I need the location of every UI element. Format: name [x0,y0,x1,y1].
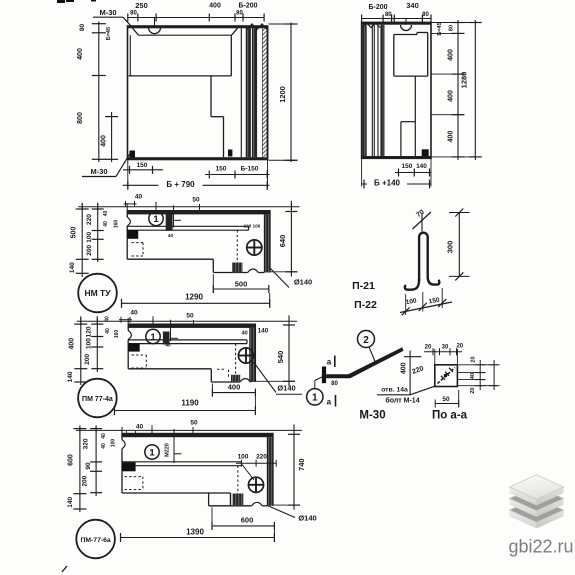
svg-text:1: 1 [312,393,318,404]
slab bottom line [128,343,247,345]
mark circle ПМ-77-6а [76,520,115,559]
svg-text:20: 20 [470,387,476,393]
svg-text:40: 40 [135,194,143,201]
rebar position circle 1 [149,211,163,225]
right end hatched band [267,437,273,506]
svg-text:По а-а: По а-а [432,410,468,422]
overall bottom dim [362,183,431,185]
rebar section dark [161,446,163,448]
dim 140 [416,163,427,170]
svg-text:40: 40 [103,211,109,217]
svg-text:80: 80 [385,12,392,18]
anchor block left [128,344,140,352]
svg-text:2: 2 [363,335,369,346]
left dimension chains [81,203,83,277]
slab right face [537,510,564,528]
svg-text:40: 40 [136,424,144,431]
slab left face [510,487,537,505]
svg-text:1190: 1190 [181,399,199,408]
anchor plate right [228,150,232,157]
dim 150 [401,163,412,170]
hole axis h [249,484,263,486]
svg-text:140: 140 [69,262,76,273]
rebar position circle 1 [146,329,160,343]
svg-text:Б-200: Б-200 [238,3,257,10]
svg-text:30: 30 [442,345,449,351]
leader Ø140 [269,267,289,288]
svg-text:600: 600 [241,516,254,525]
svg-text:40: 40 [470,373,476,379]
top dimension line [78,206,299,208]
bottom dimension rows [123,169,163,171]
svg-text:100: 100 [253,224,261,229]
svg-text:160: 160 [114,220,120,229]
slab left face [510,510,537,528]
top dimension line [128,17,264,19]
right end hatched band [250,328,256,382]
left dimension chains [79,425,81,512]
svg-text:отв. 14а: отв. 14а [381,387,408,394]
bottom notch [248,269,259,273]
bottom edge upper [122,492,231,494]
right dim 300 [458,213,460,277]
dim Б+140 [367,180,407,188]
rebar section dark [163,332,170,345]
hidden line [125,476,143,478]
dark hatched strip 1 [246,28,250,157]
anchor plate [422,149,429,156]
dim 500 [213,288,268,290]
rebar section dark [166,214,173,231]
section ПМ 77-6а (row 4) [67,420,317,559]
inner recess left edge [129,35,131,76]
right end hatched band [264,214,270,272]
stray cropped text at top edge [57,0,65,3]
thin vertical mark [173,205,175,227]
position circle 1 [307,389,323,405]
svg-text:800: 800 [77,112,84,124]
hatched bearing block [232,263,243,273]
hairpin bar [419,233,428,281]
leader up from circle [152,316,154,324]
left dimension chains [80,316,82,385]
top dimension line [362,18,431,20]
zigzag chamfer top [247,24,267,30]
svg-text:400: 400 [101,135,108,147]
svg-text:Б-200: Б-200 [368,4,387,11]
svg-text:40: 40 [168,233,174,239]
leader to bolt [410,386,436,395]
position circle 2 [358,331,375,348]
svg-text:Ø140: Ø140 [277,384,295,393]
svg-text:а: а [327,358,332,367]
svg-text:Ø140: Ø140 [298,514,316,523]
svg-text:400: 400 [209,3,221,10]
svg-text:100: 100 [86,231,93,242]
svg-text:740: 740 [297,458,306,471]
right dimension chains [457,20,459,160]
top chord thick band [362,22,431,24]
svg-text:400: 400 [448,90,455,102]
hole axis v [253,241,255,255]
leader Ø140 [254,362,277,393]
svg-text:а: а [327,398,332,407]
bolt diagonal dashed [438,368,456,384]
slab right face [537,487,564,505]
svg-text:100: 100 [238,454,249,461]
bottom step [210,369,212,382]
left edge [121,433,123,440]
leader up from circle [151,425,153,433]
left dimension chains [98,22,100,163]
leader to corner [123,17,132,26]
svg-text:40: 40 [105,328,111,334]
svg-text:50: 50 [186,313,194,320]
svg-text:140: 140 [67,496,74,507]
svg-text:40: 40 [242,331,248,337]
dim Б-150 [240,166,259,173]
bottom notch [252,502,263,506]
svg-text:400: 400 [401,362,408,374]
figure: elevation view lintel B+140 (top-right) [362,1,482,188]
svg-text:200: 200 [84,353,91,364]
left notch [127,217,130,226]
left edge [127,324,129,331]
svg-text:340: 340 [406,1,419,10]
dark hatched strip 2 [253,28,257,157]
overall bottom dim [123,184,270,186]
dim 400 vertical [409,351,411,395]
thin vertical mark [170,320,172,341]
svg-text:болт М-14: болт М-14 [385,397,419,405]
diagonal dim tick [413,212,432,229]
svg-text:300: 300 [446,241,455,254]
svg-text:40: 40 [130,309,138,316]
slab left face [510,499,537,517]
dark hatched strip [362,25,366,156]
right dim 1200 [290,23,292,163]
dim 1390 [121,537,275,539]
leader to anchor [116,154,130,177]
stray mark bottom-left [62,566,67,572]
svg-text:150: 150 [137,162,148,169]
svg-text:160: 160 [114,330,120,339]
svg-text:1200: 1200 [278,86,287,103]
svg-text:50: 50 [192,197,200,204]
svg-text:40: 40 [105,316,111,322]
svg-text:320: 320 [82,438,89,449]
rebar item П-21 / П-22 [352,209,469,316]
rebar position circle 1 [145,445,159,459]
right foot hook [428,277,440,285]
svg-text:100: 100 [111,439,117,448]
anchor block left [122,462,136,471]
hole Ø140 circle [248,477,263,492]
svg-text:640: 640 [278,235,287,248]
section По а-а : bolt through square [424,344,500,422]
slab top line [128,339,247,341]
svg-text:М-30: М-30 [359,410,385,422]
svg-text:1: 1 [149,447,155,458]
right end vertical joint strips [240,28,242,157]
inner recess [393,35,395,77]
right dim line [290,201,292,277]
slab bottom line [127,229,248,231]
svg-text:Б-150: Б-150 [241,166,259,173]
slab top face [510,475,564,499]
hidden line [132,242,144,244]
hatched bearing block [231,375,240,382]
svg-text:1: 1 [150,332,156,343]
bottom dimension rows [395,172,431,174]
svg-text:20: 20 [471,356,477,362]
svg-text:140: 140 [67,371,74,382]
svg-text:40: 40 [101,433,107,439]
left edge [126,210,128,217]
bottom edge lower [213,272,247,274]
step box bottom [209,505,231,507]
inner recess bottom [129,75,232,77]
dim Б+790 [159,181,203,189]
right edge reinforced [267,26,269,160]
zigzag chamfer top [362,23,380,28]
mark circle НМ ТУ [78,274,117,313]
svg-text:ПМ 77-4а: ПМ 77-4а [82,396,113,403]
thin vertical mark [173,429,175,463]
svg-text:100: 100 [86,338,93,349]
svg-text:1290: 1290 [185,293,203,302]
bottom edge lower [211,381,240,383]
svg-text:Б=45: Б=45 [437,22,443,35]
svg-text:600: 600 [68,454,75,466]
svg-text:400: 400 [69,338,76,350]
svg-text:220: 220 [256,454,267,461]
svg-text:40: 40 [101,443,107,449]
hidden vertical [237,466,239,494]
svg-text:250: 250 [135,1,148,10]
bottom edge upper [127,258,213,260]
svg-text:140: 140 [258,328,269,335]
step box left [208,493,210,506]
svg-text:200: 200 [82,475,89,486]
top flange thick band [127,210,270,214]
svg-text:40: 40 [165,343,171,349]
dim 400 [212,392,255,394]
anchor block left [127,230,138,239]
top dimension line [76,429,302,431]
svg-text:540: 540 [276,351,285,364]
svg-text:Б=45: Б=45 [106,27,112,40]
svg-text:80: 80 [449,25,455,31]
svg-text:400: 400 [448,49,455,61]
bottom step [212,259,214,272]
svg-text:50: 50 [190,420,198,427]
narrow dark strip [380,25,382,156]
svg-text:ПМ-77-6а: ПМ-77-6а [80,537,110,544]
bent bar solid [326,347,403,378]
svg-text:М-30: М-30 [99,8,116,17]
svg-text:П-22: П-22 [354,299,377,311]
svg-text:40: 40 [103,221,109,227]
hidden vertical [236,230,238,262]
dim 1290 [122,302,270,304]
svg-text:140: 140 [416,163,427,170]
svg-text:500: 500 [235,279,248,288]
bottom dims 100 / 150 [400,302,452,313]
right dim line [293,424,295,509]
inner recess right edge [230,35,232,76]
loop hook at top [401,25,412,31]
svg-text:80: 80 [236,11,243,17]
top chord thick band [128,26,268,28]
svg-text:Ø140: Ø140 [294,278,312,287]
svg-text:М220: М220 [165,443,171,457]
hatched bearing block [232,494,243,506]
svg-text:20: 20 [425,345,432,351]
hole axis h [239,355,253,357]
svg-text:220: 220 [86,214,93,225]
svg-text:1: 1 [153,214,159,225]
svg-text:80: 80 [130,11,137,17]
left end vertical joint strips [365,25,367,156]
svg-text:90: 90 [85,462,92,470]
slab top line [122,461,242,463]
svg-text:120: 120 [86,326,93,337]
bottom edge lower [231,505,252,507]
leader up from circle [155,202,157,211]
left notch [128,331,131,340]
hole axis v [255,478,257,492]
svg-text:П-21: П-21 [352,280,375,292]
textured edge strip [263,28,268,157]
svg-text:150: 150 [216,166,227,173]
svg-text:НМ ТУ: НМ ТУ [84,288,111,298]
svg-text:500: 500 [71,227,78,239]
svg-text:Б + 790: Б + 790 [166,180,195,189]
svg-text:1390: 1390 [186,528,204,537]
center vertical [414,76,416,156]
leader Ø140 [268,506,295,518]
leader to hole [242,465,254,481]
hole axis h [247,247,261,249]
body outline [362,22,431,158]
slab bottom line [122,465,242,467]
step vertical [210,76,212,117]
svg-text:400: 400 [77,48,84,60]
hole Ø140 circle [247,240,262,255]
svg-text:400: 400 [228,383,241,392]
svg-text:М-30: М-30 [90,167,107,176]
svg-text:20: 20 [456,344,463,350]
svg-text:100: 100 [244,224,252,229]
anchor plate left [130,151,136,158]
svg-text:Б +140: Б +140 [374,179,401,188]
section ПМ 77-4а (row 3) [67,309,302,417]
svg-text:200: 200 [86,244,93,255]
bottom chord thick band [128,157,268,159]
hidden vertical [235,344,237,375]
svg-text:150: 150 [402,163,413,170]
svg-text:80: 80 [79,24,86,32]
inner top line [139,34,232,36]
slab top face [510,498,564,522]
svg-text:80: 80 [422,12,429,18]
svg-text:1280: 1280 [460,72,469,89]
body outline [128,26,268,160]
bottom edge upper [128,368,211,370]
slab right face [537,499,564,517]
slab top face [510,486,564,510]
logo gbi22.ru : stacked slabs [62,475,574,572]
hole axis v [245,349,247,363]
step box right [230,493,232,506]
witness from cap [421,213,423,232]
bottom chord thick band [362,156,431,158]
left notch [122,440,125,449]
top dimension line [77,320,297,322]
leader from circle 2 [369,347,376,363]
note underline [377,394,410,396]
svg-text:gbi22.ru: gbi22.ru [508,537,573,557]
top flange thick band [122,433,273,437]
loop hook at top [149,28,161,34]
right dim line [288,315,290,386]
dim 1190 [115,410,256,412]
bottom notch [240,379,251,383]
svg-text:80: 80 [331,381,338,387]
hole Ø140 circle [238,348,253,363]
top flange thick band [128,324,255,328]
detail М-30 : bent bar with plate [307,331,436,422]
leader tail [276,393,302,395]
bottom step [230,493,232,506]
left foot hook [405,279,419,290]
section НМ ТУ (row 2) [69,194,312,313]
figure: elevation view lintel B+790 (top-left) [57,0,298,190]
hidden line [132,354,147,356]
leader from circle 1 [314,381,316,389]
right dims 20 40 20 [479,360,481,390]
svg-text:400: 400 [448,131,455,143]
mark circle ПМ 77-4а [78,379,117,418]
svg-text:50: 50 [442,396,450,403]
dim 600 [212,525,274,527]
step vertical [400,122,402,156]
slab top line [127,225,248,227]
